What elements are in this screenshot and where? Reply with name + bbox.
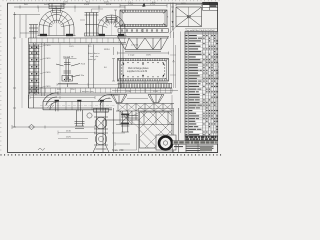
svg-text:1525: 1525 <box>84 4 90 6</box>
right margin vertical text strip <box>218 63 220 80</box>
interior dim line <box>57 83 120 86</box>
title block dense text rows <box>186 136 217 139</box>
bottom edge perforation ticks <box>1 154 221 156</box>
pipe flange small rects <box>55 100 104 102</box>
leader diagonals mid <box>130 112 140 128</box>
BOM column lines <box>188 32 216 137</box>
svg-text:Web & flange plates: Web & flange plates <box>128 67 149 70</box>
verticals right of ladder <box>42 43 44 96</box>
anchor ring <box>156 135 176 150</box>
splice bolt dots <box>31 46 37 91</box>
section marker triangle <box>142 3 146 7</box>
bolted splice ladder strip <box>29 45 40 95</box>
verticals right of rect A <box>171 3 174 39</box>
detail title underline <box>64 58 77 60</box>
grid line left <box>21 38 23 108</box>
svg-text:1415: 1415 <box>128 4 134 6</box>
plan top beam chord <box>29 38 127 43</box>
center posts pair <box>85 13 99 37</box>
beam left end cap <box>29 25 38 39</box>
top strip text marks <box>128 2 156 4</box>
svg-text:rem. c/w: rem. c/w <box>90 55 99 58</box>
truss dim line <box>118 52 169 55</box>
interior dim ticks top <box>70 43 90 45</box>
plan mid verticals <box>89 45 94 89</box>
support tower frame <box>94 108 109 145</box>
svg-text:1675: 1675 <box>66 137 72 139</box>
fitting labels <box>57 64 86 92</box>
rect C top hatch <box>119 59 167 62</box>
rect C centre text <box>127 67 149 73</box>
signature smudges <box>174 146 214 152</box>
tower base flare <box>93 145 109 152</box>
horizontal pipe run <box>43 100 112 111</box>
bottom yard outline <box>103 108 179 153</box>
right dome cap <box>106 18 117 23</box>
rect view A outline <box>120 10 167 27</box>
X square dims <box>171 3 202 31</box>
faint marks right mid <box>170 55 176 75</box>
secondary dim line left <box>14 15 40 39</box>
right elbow arcs <box>98 94 112 105</box>
X square corner leader <box>170 27 177 34</box>
svg-text:W310: W310 <box>104 49 110 51</box>
BOM table body <box>185 32 218 137</box>
X square centre plate <box>187 16 190 18</box>
svg-text:1205: 1205 <box>181 3 187 5</box>
svg-text:Exist. bm to: Exist. bm to <box>88 52 100 55</box>
plan bottom beam ticks <box>31 88 171 93</box>
hopper connect line <box>108 98 148 100</box>
left dome cap box <box>49 4 64 13</box>
svg-text:Scale 1:50: Scale 1:50 <box>112 149 124 152</box>
X square texts <box>167 3 187 18</box>
plan left chord lines <box>29 38 37 108</box>
svg-text:L76x64: L76x64 <box>131 45 139 47</box>
vertical pipe mid <box>121 111 129 132</box>
rect A dim text <box>128 4 156 6</box>
small circle detail near pipe <box>87 113 92 118</box>
svg-text:2 anchors req: 2 anchors req <box>80 90 94 93</box>
rect A bottom hatch <box>121 24 166 26</box>
left dome elbow assembly <box>38 10 76 36</box>
band dim text <box>126 91 159 93</box>
right dome elbow assembly <box>97 15 127 36</box>
lattice pedestal <box>138 109 174 153</box>
dome centre lines <box>57 10 112 36</box>
vertical pipe caps <box>121 114 129 124</box>
faint dim verticals right <box>172 32 181 134</box>
bolted beam side view <box>118 29 169 33</box>
gray band strip <box>173 141 218 145</box>
svg-text:1870: 1870 <box>146 55 152 57</box>
long dim line lower left <box>12 125 95 129</box>
svg-text:supplied c/w unit #2: supplied c/w unit #2 <box>127 70 148 73</box>
overall dimension line top <box>14 6 125 9</box>
lower frame posts <box>116 111 174 125</box>
rect A dim line above <box>120 4 167 8</box>
pipe left elbow arcs <box>43 92 58 111</box>
heavy band hatch <box>119 84 172 89</box>
right hopper <box>148 95 164 103</box>
dimension text row top <box>24 4 112 6</box>
svg-text:2 reqd: 2 reqd <box>128 54 135 57</box>
svg-text:DWG 1044-05 REV 2: DWG 1044-05 REV 2 <box>218 63 220 80</box>
right dome base pads <box>99 34 124 36</box>
svg-text:Detail '7': Detail '7' <box>64 55 74 59</box>
rect C bottom hatch <box>119 79 167 81</box>
lower left text marks <box>66 131 72 139</box>
rect C bolt dots <box>123 63 164 76</box>
plan bottom beam chord <box>29 88 173 95</box>
left hopper <box>111 95 127 103</box>
small fitting detail <box>56 59 80 87</box>
X-braced square <box>176 7 202 27</box>
rect C corner marks <box>118 59 169 82</box>
BOM qty column shading <box>203 32 218 137</box>
bottom centre title text <box>112 149 124 152</box>
level diamond symbol <box>29 124 35 129</box>
left vertical dimension line <box>13 12 16 127</box>
left dome base pads <box>40 34 73 36</box>
svg-text:2740: 2740 <box>126 91 132 93</box>
svg-text:conn. pl.: conn. pl. <box>88 59 97 61</box>
page background <box>0 0 222 157</box>
signature block <box>173 141 218 153</box>
weights note rule <box>185 28 218 31</box>
splice leader labels <box>47 45 52 88</box>
tower circle lower <box>95 133 107 145</box>
BOM text entries <box>186 35 188 36</box>
braced band <box>116 104 174 112</box>
heavy hatched beam band <box>118 84 173 89</box>
weights note lines <box>186 29 216 32</box>
plan bottom closure <box>29 95 113 108</box>
text above frame <box>63 2 110 4</box>
dim extension drops <box>39 7 126 12</box>
band dim arrows <box>112 89 178 93</box>
BOM shaded row blocks <box>185 58 218 66</box>
faint vertical interior <box>59 43 61 95</box>
vertical pipe drop <box>75 110 85 129</box>
BOM row lines <box>185 34 218 133</box>
tower circle upper <box>95 117 107 129</box>
truss labels <box>128 45 152 57</box>
top edge tick marks <box>3 0 219 1</box>
rect A left dim <box>114 10 117 27</box>
notes text right of plan <box>80 49 110 93</box>
svg-text:2740: 2740 <box>153 91 159 93</box>
splice leader lines <box>39 45 46 88</box>
svg-text:2130: 2130 <box>66 131 72 133</box>
fitting bolt dots <box>64 79 71 80</box>
plan right verticals <box>121 43 124 88</box>
detail title text <box>64 55 74 59</box>
dim line under bottom beam <box>30 96 95 99</box>
plan top beam stiffener ticks <box>31 38 125 43</box>
upper band dim line <box>118 82 168 84</box>
pipe centerline <box>40 105 115 107</box>
BOM header row <box>185 32 218 35</box>
rect A top hatch <box>121 10 166 12</box>
left edge tick marks <box>0 6 1 150</box>
svg-text:1415: 1415 <box>150 4 156 6</box>
svg-text:1070: 1070 <box>106 4 112 6</box>
interior top dim text <box>69 46 92 48</box>
rect view C outline <box>118 59 169 82</box>
posts top leaders <box>80 9 104 20</box>
top-right mini table <box>203 2 218 10</box>
drawing frame border <box>8 3 218 152</box>
rect C inner bolt rows <box>121 62 165 77</box>
dim line mid lower <box>58 131 95 139</box>
bottom dim marks <box>112 133 137 150</box>
rect C left dim <box>112 47 115 81</box>
truss elevation <box>118 36 169 51</box>
pipe left elbow hatch <box>45 102 54 110</box>
corner signature mark <box>38 148 45 150</box>
